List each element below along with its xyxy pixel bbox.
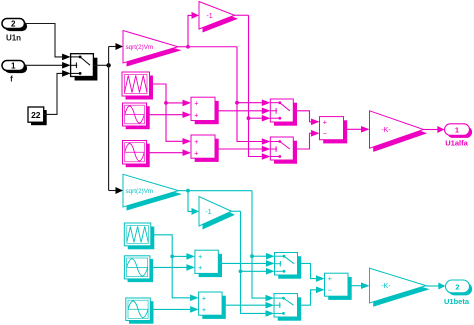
wire cyan -1 output to -Vm rail (232, 210, 241, 212)
junction node cyan +Vm to switch1 (250, 254, 254, 258)
wire cyan sqrt output to junction B (179, 190, 189, 192)
wire cyan +Vm to switch1 in1 (252, 253, 275, 260)
constant block '22' (28, 107, 47, 125)
svg-text:f: f (10, 75, 13, 84)
arrowhead Switch in3 (62, 70, 71, 77)
wire cyan switch1 out to sum3 plus (298, 263, 325, 282)
wire junction B right to cyan +Vm rail (188, 190, 252, 192)
wire to magenta gain sqrt(2)Vm (109, 43, 123, 50)
sum block 3 (cyan +-) (325, 273, 352, 300)
switch block U0 (manual/3-port switch) (71, 54, 98, 81)
label U1alfa (445, 139, 468, 148)
wire cyan -Vm to switch1 in3 (241, 268, 275, 275)
wire sine2 to sum2 in2 (147, 149, 192, 156)
sine source block 1 (cyan) (124, 256, 153, 282)
wire cyan sum1 to switch1 control (218, 260, 274, 267)
switch block 1 (cyan) (275, 253, 302, 279)
sum block 3 (magenta +-) (320, 117, 348, 144)
output port block Out1 (oval '1') (445, 124, 473, 138)
svg-text:1: 1 (455, 126, 459, 135)
wire cyan carrier to sums vertical (151, 235, 199, 301)
svg-text:22: 22 (31, 110, 41, 120)
junction node carrier (164, 101, 168, 105)
svg-text:U1beta: U1beta (444, 297, 470, 306)
svg-text:-K-: -K- (381, 127, 391, 134)
wire cyan sine1 to sum1 in2 (150, 264, 195, 271)
sum block 1 (magenta ++) (191, 97, 219, 124)
sine source block 2 (magenta) (123, 141, 150, 168)
svg-text:+: + (194, 110, 199, 119)
wire -Vm to switch1 in3 (249, 115, 271, 122)
svg-text:−: − (328, 285, 333, 294)
wire switch1 out to sum3 plus (293, 111, 319, 125)
svg-text:+: + (194, 148, 199, 157)
wire cyan +Vm rail vertical (x=252) (252, 191, 274, 302)
wire sum2 to switch2 control (215, 146, 270, 153)
svg-text:U1n: U1n (6, 34, 21, 43)
wire gain -K- to output U1alfa (424, 126, 445, 133)
junction node cyan -Vm to switch1 (239, 269, 243, 273)
wire In2 to Switch input 1 (25, 24, 64, 57)
gain block -K- (cyan) (370, 268, 430, 307)
svg-text:−: − (323, 129, 328, 138)
gain block -1 (cyan) (199, 197, 235, 230)
wire junction A up to gain -1 (188, 12, 199, 47)
junction node A (magenta +Vm) (186, 45, 190, 49)
wire sum1 to switch1 control (215, 108, 270, 115)
wire sine1 to sum1 in2 (147, 111, 192, 118)
input port block In2 'U1n' (oval '2') (2, 19, 27, 32)
svg-text:-K-: -K- (381, 283, 391, 290)
wire cyan carrier to sum1 in1 (172, 253, 195, 260)
wire +Vm rail vertical (x=237) (237, 47, 270, 145)
wire junction vertical trunk (108, 47, 110, 191)
sine source block 1 (magenta) (123, 103, 150, 129)
wire In1 to Switch input 2 (25, 64, 64, 66)
junction node at switch output (106, 63, 110, 67)
input port block In1 'f' (oval '1') (2, 61, 27, 74)
svg-text:-1: -1 (205, 209, 211, 216)
junction node +Vm to switch1 (235, 101, 239, 105)
svg-text:sqrt(2)Vm: sqrt(2)Vm (126, 188, 154, 195)
wire cyan sum2 to switch2 control (222, 302, 274, 309)
sum block 1 (cyan ++) (195, 250, 222, 277)
svg-text:+: + (198, 263, 203, 272)
svg-text:2: 2 (455, 282, 459, 291)
svg-text:+: + (194, 99, 199, 108)
svg-text:+: + (328, 274, 333, 283)
wire sum3 to gain -K- (344, 126, 370, 133)
label U1beta (444, 297, 470, 306)
wire -Vm rail vertical (x=248.5) (249, 15, 271, 160)
wire +Vm to switch1 in1 (237, 99, 270, 106)
junction node -Vm to switch1 (247, 116, 251, 120)
wire carrier to sum1 in1 (166, 100, 191, 107)
switch block 1 (magenta) (270, 99, 297, 126)
svg-text:+: + (323, 117, 328, 126)
wire to cyan gain sqrt(2)Vm (109, 187, 123, 194)
label U1n (6, 34, 21, 43)
wire junction A right to +Vm rail (188, 46, 237, 48)
svg-text:+: + (202, 305, 207, 314)
junction node cyan carrier (170, 255, 174, 259)
gain block -K- (magenta) (370, 111, 428, 152)
arrowhead Switch in2 (62, 62, 71, 69)
triangle-wave source block (magenta carrier) (122, 72, 153, 100)
svg-text:2: 2 (11, 20, 16, 29)
wire carrier to sums vertical (150, 84, 192, 145)
svg-text:+: + (202, 294, 207, 303)
wire Constant 22 to Switch input 3 (44, 73, 63, 114)
output port block Out2 (oval '2') (446, 280, 473, 295)
switch block 2 (cyan) (274, 294, 301, 321)
wire cyan switch2 out to sum3 minus (298, 287, 325, 306)
sum block 2 (magenta ++) (191, 135, 219, 162)
gain block -1 (magenta) (199, 2, 238, 33)
svg-text:1: 1 (11, 62, 16, 71)
wire cyan -Vm rail vertical (x=240.5) (241, 211, 275, 316)
wire junction B down to gain -1 cyan (188, 191, 199, 215)
triangle-wave source block (cyan carrier) (124, 223, 154, 249)
wire cyan gain -K- to output U1beta (426, 283, 446, 290)
wire switch2 out to sum3 minus (293, 130, 319, 149)
sum block 2 (cyan ++) (199, 292, 226, 319)
arrowhead Switch in1 (62, 54, 71, 61)
wire sqrt gain output to junction A (178, 46, 188, 48)
wire -1 output to -Vm rail (235, 14, 249, 16)
svg-text:sqrt(2)Vm: sqrt(2)Vm (126, 44, 154, 51)
svg-text:+: + (194, 137, 199, 146)
gain block sqrt(2)Vm (magenta) (123, 31, 182, 67)
svg-text:+: + (198, 252, 203, 261)
sine source block 2 (cyan) (126, 298, 154, 324)
wire cyan sine2 to sum2 in2 (150, 306, 198, 313)
svg-text:-1: -1 (206, 13, 212, 20)
gain block sqrt(2)Vm (cyan) (123, 174, 182, 210)
junction node B (cyan +Vm) (186, 189, 190, 193)
label f (10, 75, 13, 84)
switch block 2 (magenta) (270, 137, 297, 164)
svg-text:U1alfa: U1alfa (445, 139, 468, 148)
wire Switch output to junction (93, 64, 108, 66)
wire cyan sum3 to gain -K- (348, 282, 370, 289)
